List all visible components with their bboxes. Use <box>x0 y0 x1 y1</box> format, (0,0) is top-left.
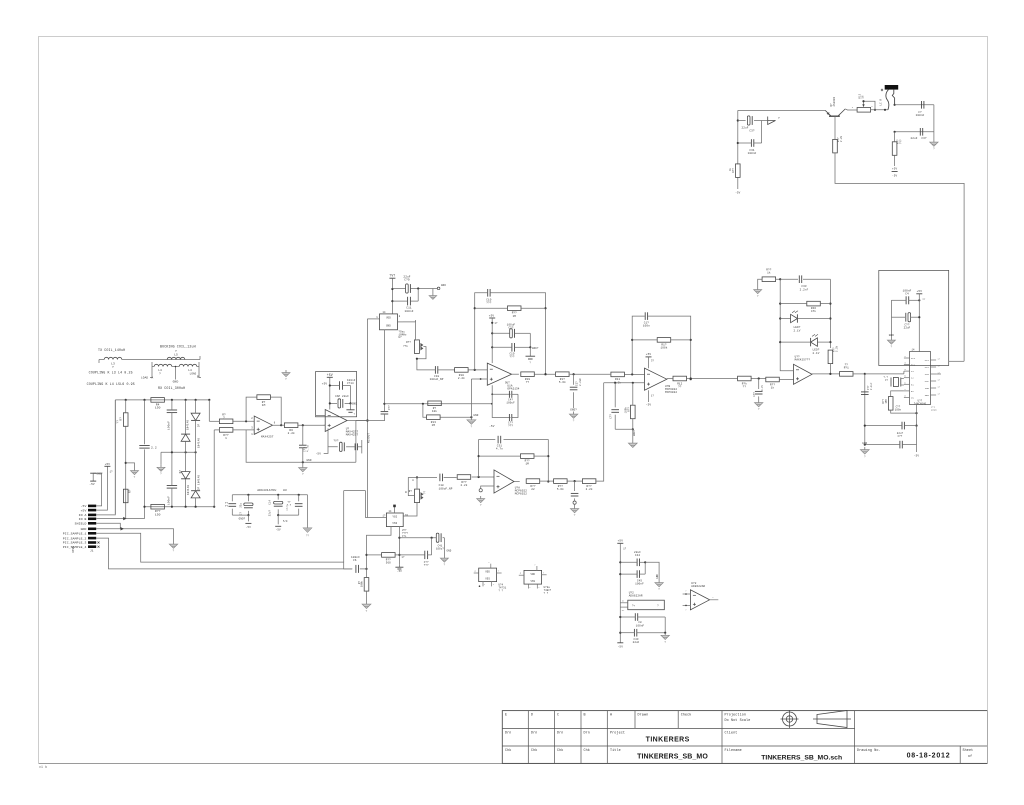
svg-text:GND?: GND? <box>97 473 104 476</box>
svg-text:GND: GND <box>352 403 357 406</box>
ground mid-left <box>131 468 139 479</box>
svg-text:ZEN: ZEN <box>925 394 930 397</box>
label C11 <box>405 307 414 313</box>
capacitor C44 <box>620 551 645 566</box>
svg-text:4046: 4046 <box>931 409 937 412</box>
resistor R y2 down <box>358 569 369 591</box>
ground ad bottom <box>661 633 669 644</box>
capacitor C qpath gnd <box>571 481 579 501</box>
pol capacitor osc A <box>392 284 437 293</box>
svg-text:AD9431A?DU: AD9431A?DU <box>257 489 276 492</box>
svg-text:D?: D? <box>179 470 182 474</box>
svg-text:PCP: PCP <box>925 380 930 383</box>
svg-text:+5V: +5V <box>322 383 328 386</box>
svg-text:C: C <box>557 714 559 718</box>
svg-text:IN B: IN B <box>79 517 87 521</box>
bypass box pll <box>879 270 949 365</box>
connector J1 labels <box>63 504 94 553</box>
svg-text:?: ? <box>757 295 759 298</box>
svg-text:5/9: 5/9 <box>283 520 288 523</box>
capacitor C pre led <box>753 379 764 401</box>
svg-text:22u?: 22u? <box>269 510 272 517</box>
transistor Q1 <box>825 96 845 139</box>
wire qpath in <box>408 476 437 478</box>
power bar osc <box>389 274 395 279</box>
ground u3 big <box>303 528 312 538</box>
svg-text:+5V: +5V <box>81 508 87 512</box>
wire ad gnd stub <box>645 562 659 580</box>
svg-text:GND: GND <box>173 381 179 384</box>
label +5V tr <box>892 168 897 171</box>
svg-text:GND: GND <box>473 414 478 417</box>
svg-text:GND: GND <box>386 325 391 328</box>
ic U13 pins <box>474 561 502 587</box>
svg-text:PIC_SAMPLE_2: PIC_SAMPLE_2 <box>63 536 87 540</box>
svg-text:MAX4257: MAX4257 <box>346 434 359 437</box>
svg-text:?: ? <box>470 426 472 429</box>
svg-text:Projection: Projection <box>725 713 747 718</box>
wire cap22 <box>329 377 352 409</box>
svg-text:-5V: -5V <box>892 175 897 178</box>
wire pll gnd <box>890 317 892 337</box>
svg-text:?V?: ?V? <box>389 274 395 278</box>
wire right mid rail <box>894 131 934 133</box>
svg-text:4.7u: 4.7u <box>307 445 310 452</box>
svg-text:?: ? <box>112 366 114 369</box>
wire R to opamp plus <box>233 429 254 431</box>
resistor R out led <box>840 363 854 376</box>
svg-text:VCO: VCO <box>925 373 930 376</box>
label GND mid <box>307 459 312 462</box>
svg-text:C??: C?? <box>610 414 613 419</box>
wire y2 bottom pins <box>365 527 391 569</box>
svg-text:J1: J1 <box>90 550 94 553</box>
resistor R 2k2 qpath <box>582 479 596 491</box>
capacitor C pll 22u <box>865 422 917 438</box>
svg-text:PC2: PC2 <box>911 364 916 367</box>
label 100nF C4 <box>903 290 912 296</box>
wire st2 lower net <box>324 440 362 453</box>
resistor R12 out <box>667 376 687 388</box>
svg-text:100nF: 100nF <box>405 310 414 313</box>
svg-text:Drn: Drn <box>557 730 563 735</box>
ic pll right pins <box>925 358 941 398</box>
resistor R1x 5k6 <box>556 372 570 384</box>
svg-text:1k: 1k <box>729 168 732 172</box>
svg-text:-5V: -5V <box>646 404 652 407</box>
wire osc out pin <box>398 321 404 323</box>
resistor R9 1M <box>475 306 546 318</box>
svg-text:Drawing No.: Drawing No. <box>857 748 881 753</box>
resistor R11 mix <box>611 372 625 384</box>
wire top bus <box>115 399 210 401</box>
ground led top <box>754 287 762 298</box>
wire u3 bot right <box>278 514 299 516</box>
svg-text:? ?: ? ? <box>499 590 504 593</box>
capacitor u3 c1 <box>225 495 236 515</box>
svg-text:v1 b: v1 b <box>39 765 47 769</box>
wire pll bottom net1 <box>891 391 904 397</box>
wire C18 to R <box>444 476 457 478</box>
svg-text:TX COIL_140uH: TX COIL_140uH <box>98 348 125 352</box>
svg-text:SHIELD: SHIELD <box>75 522 87 526</box>
label coupling 1 <box>89 371 133 375</box>
svg-text:2.2k: 2.2k <box>836 345 839 352</box>
svg-text:D? 1N4148: D? 1N4148 <box>197 475 200 490</box>
svg-text:Project: Project <box>610 730 625 735</box>
svg-text:R?1: R?1 <box>844 367 849 370</box>
inductor L4b <box>179 364 197 375</box>
svg-text:100nF: 100nF <box>635 583 644 586</box>
op-amp U12B <box>690 582 709 610</box>
title block <box>502 710 987 763</box>
svg-text:?: ? <box>173 550 175 553</box>
capacitor C22 pll <box>891 313 920 330</box>
svg-text:VSS: VSS <box>485 578 490 581</box>
capacitor C9 100nF <box>340 379 356 390</box>
resistor R 1k top <box>762 268 776 281</box>
svg-text:-5V: -5V <box>489 425 495 428</box>
wire mix trim path <box>417 359 455 370</box>
svg-text:2.2k: 2.2k <box>458 376 465 380</box>
svg-text:22u: 22u <box>240 503 243 508</box>
svg-text:INH: INH <box>925 387 930 390</box>
svg-text:C?14: C?14 <box>347 382 354 385</box>
svg-text:1?: 1? <box>402 556 405 559</box>
crystal Y1 <box>891 378 901 387</box>
svg-text:1M: 1M <box>525 463 529 466</box>
svg-text:-5V: -5V <box>316 452 322 455</box>
resistor R pre led <box>738 376 752 388</box>
ground tr right <box>930 132 938 151</box>
svg-text:2.2: 2.2 <box>151 446 157 449</box>
wire u3 top bus <box>232 494 307 496</box>
svg-text:??: ?? <box>845 363 849 366</box>
capacitor C pll xtal <box>864 441 917 449</box>
wire R2 rail <box>125 400 127 519</box>
wire y2 top pin <box>393 505 396 513</box>
inductor L3 <box>104 357 122 369</box>
svg-text:CONN: CONN <box>72 546 75 553</box>
wire left rail <box>114 400 116 514</box>
wire left drop tr <box>737 110 739 164</box>
svg-text:???: ??? <box>424 564 429 567</box>
svg-text:R??: R?? <box>732 168 735 173</box>
op-amp U5 MAX4257 <box>325 410 358 437</box>
led LED1 <box>780 311 830 333</box>
svg-text:?: ? <box>574 514 576 517</box>
wire C9 <box>330 385 351 387</box>
capacitor C31 tr <box>738 121 762 156</box>
capacitor C42b <box>399 538 431 568</box>
ground qtap <box>569 412 577 423</box>
wire sum plus in <box>604 382 645 384</box>
svg-text:-5V: -5V <box>735 191 740 194</box>
svg-text:?: ? <box>223 417 225 420</box>
wire led out2 <box>853 373 866 375</box>
svg-text:-5V: -5V <box>246 526 251 529</box>
wire ic right pin <box>403 320 415 322</box>
svg-text:LOAD: LOAD <box>141 377 148 380</box>
label GND pll <box>889 334 894 337</box>
svg-text:R??: R?? <box>882 399 885 404</box>
capacitor u3 c4 <box>286 495 303 515</box>
svg-text:1M: 1M <box>262 404 266 407</box>
svg-text:???: ??? <box>508 425 513 428</box>
svg-text:Chk: Chk <box>505 748 511 753</box>
svg-text:A: A <box>152 377 154 380</box>
capacitor C17 st2 <box>355 443 357 450</box>
svg-text:C??: C?? <box>753 392 756 397</box>
capacitor C18 NP <box>439 474 453 491</box>
port circle qpath <box>479 489 482 492</box>
wire st2 minus <box>316 414 326 416</box>
svg-text:?: ? <box>480 504 482 507</box>
capacitor C3 upper <box>167 410 177 430</box>
trimmer R8 <box>409 489 427 503</box>
capacitor C33 fb <box>799 275 808 291</box>
ic U14 small <box>524 570 542 584</box>
power +5V pll <box>916 290 926 352</box>
label U14 <box>544 586 552 595</box>
wire base rail <box>738 109 826 111</box>
svg-text:08-18-2012: 08-18-2012 <box>907 753 951 760</box>
label GND sum <box>633 429 636 436</box>
resistor R10 qpath <box>457 475 471 488</box>
svg-text:+5V: +5V <box>917 290 923 293</box>
svg-text:1N4148: 1N4148 <box>197 438 200 448</box>
ground y2 flat <box>395 565 403 573</box>
wire sum vminus <box>649 390 655 402</box>
wire C7 <box>302 425 304 462</box>
label -5V sum <box>646 404 652 407</box>
svg-text:C3?: C3? <box>749 130 754 133</box>
wire mid gnd <box>160 452 162 464</box>
wire pin1 -5V <box>93 473 101 506</box>
svg-text:??: ?? <box>424 490 427 494</box>
capacitor C mixout tap <box>861 382 873 394</box>
resistor R emitter <box>833 135 843 153</box>
svg-text:PC2: PC2 <box>925 366 930 369</box>
svg-text:100n: 100n <box>895 409 902 412</box>
diode D2 <box>179 470 190 495</box>
svg-text:?: ? <box>366 610 368 613</box>
diode D1 <box>181 420 190 442</box>
capacitor C right a <box>916 101 925 117</box>
svg-text:?: ? <box>529 362 531 365</box>
svg-text:?: ? <box>285 378 287 381</box>
ground osc <box>429 293 437 299</box>
ground pre led <box>755 400 763 411</box>
nc mark pin9 <box>98 542 100 544</box>
svg-text:?: ? <box>933 148 935 151</box>
svg-text:TINKERERS_SB_MO: TINKERERS_SB_MO <box>637 754 708 761</box>
svg-text:??: ?? <box>678 386 682 389</box>
label MIXOUT <box>368 433 371 443</box>
pol capacitor u3 c3 <box>269 495 283 516</box>
resistor R lower 10k <box>428 401 442 413</box>
power +5V U1A <box>489 314 495 318</box>
capacitor C gnd sum <box>610 383 633 430</box>
wire R10 to opamp <box>472 476 494 478</box>
svg-text:Chk: Chk <box>531 748 537 753</box>
label GND r13 <box>473 414 478 417</box>
wire qpath out2 <box>540 480 554 482</box>
svg-text:74HC4046: 74HC4046 <box>914 403 927 406</box>
wire U1A out3 <box>570 373 611 375</box>
svg-text:56: 56 <box>862 95 865 99</box>
pol capacitor C bypass U1A a <box>492 324 530 338</box>
capacitor C40 <box>509 391 511 398</box>
ic Y2 osc <box>383 510 409 526</box>
svg-text:?: ? <box>134 476 136 479</box>
svg-text:Title: Title <box>610 748 621 753</box>
svg-text:E: E <box>505 714 507 718</box>
capacitor C16 st2 <box>333 440 344 452</box>
resistor R5 <box>151 504 165 516</box>
wire ic to trimmer <box>415 320 417 340</box>
ground qpath out <box>570 506 578 517</box>
svg-text:C??: C?? <box>898 435 903 438</box>
label GND qtap <box>570 409 577 412</box>
svg-text:2.2k: 2.2k <box>288 431 295 435</box>
inductor L4a <box>154 364 172 375</box>
capacitor C10 fb <box>486 289 491 305</box>
resistor R 560 <box>367 553 400 565</box>
capacitor C7 tank <box>299 445 310 452</box>
svg-text:-5V: -5V <box>914 455 919 458</box>
wire trimmer <box>408 476 418 495</box>
svg-text:of: of <box>968 754 972 759</box>
capacitor C30 right <box>911 128 927 140</box>
svg-text:R??: R?? <box>628 407 631 412</box>
svg-text:100nF: 100nF <box>636 624 645 627</box>
wire mixout bus <box>366 319 368 518</box>
wire right top rail <box>895 105 934 132</box>
label A B trim <box>405 479 414 494</box>
ic oscillator X1 <box>376 311 401 330</box>
resistor R gnd sum <box>625 405 636 419</box>
wire pin2 +5V <box>96 466 113 510</box>
svg-text:GND?: GND? <box>570 409 577 412</box>
svg-text:100k: 100k <box>625 407 628 414</box>
capacitor C4 pll <box>891 296 920 317</box>
wire sum out <box>687 377 737 379</box>
wire pll left drop <box>864 374 866 445</box>
ground qpath plus <box>477 496 485 507</box>
led LED2 <box>780 334 830 354</box>
svg-text:22: 22 <box>531 488 535 491</box>
resistor R input A <box>219 414 233 424</box>
wire u3 stub2 <box>275 515 288 532</box>
label -5V U1A <box>489 425 495 428</box>
resistor R3 lower <box>123 489 131 503</box>
ground top mid <box>282 370 290 381</box>
svg-text:GND: GND <box>447 550 452 553</box>
capacitor C5 lower <box>167 486 177 506</box>
wire pin7 sample1 <box>96 533 352 569</box>
wire tr r down <box>735 177 740 194</box>
label U12 AD8622 <box>629 592 643 598</box>
svg-text:GND?: GND? <box>633 429 636 436</box>
wire U1A vplus <box>491 318 498 363</box>
label coupling 2 <box>87 382 135 386</box>
power +5V st2 <box>327 373 333 378</box>
nc mark pin10 <box>98 546 100 548</box>
wire osc pwr <box>391 278 393 314</box>
svg-text:C?: C? <box>240 512 243 516</box>
svg-text:AD8622AR: AD8622AR <box>691 585 705 588</box>
label 22uF C9 <box>403 275 410 281</box>
svg-text:560: 560 <box>386 562 391 565</box>
svg-text:TINKERERS_SB_MO.sch: TINKERERS_SB_MO.sch <box>761 755 842 762</box>
svg-text:150: 150 <box>155 407 161 410</box>
resistor R46 fb <box>780 301 830 313</box>
jack tip contact <box>892 90 895 106</box>
svg-text:2.2k: 2.2k <box>840 135 843 142</box>
wire sum vplus <box>649 357 655 368</box>
svg-text:10k: 10k <box>432 409 437 413</box>
wire r vert2 down <box>894 155 896 166</box>
power bar tr <box>892 172 898 178</box>
wire pll box out <box>949 360 964 362</box>
op-amp U7 sum <box>645 368 678 394</box>
rx coil frame <box>150 362 201 378</box>
svg-text:+5V: +5V <box>892 168 897 171</box>
resistor R47 vert <box>828 345 838 363</box>
resistor R input B <box>219 428 233 440</box>
resistor R out qpath <box>526 479 540 491</box>
wire st2 right loop <box>355 421 357 463</box>
wire r down gnd <box>366 591 368 601</box>
svg-text:BUCKING COIL_12uH: BUCKING COIL_12uH <box>160 345 196 349</box>
svg-text:R?: R? <box>120 417 123 421</box>
label pll pin14 <box>911 349 915 352</box>
op-amp U8 led <box>794 356 813 385</box>
capacitor C31 qpath <box>496 436 503 451</box>
label 100n pll <box>895 406 902 412</box>
capacitor C8 ad <box>620 613 665 627</box>
svg-text:14: 14 <box>382 311 386 314</box>
svg-text:VDD: VDD <box>485 571 490 574</box>
svg-text:C?: C? <box>885 379 888 382</box>
svg-text:COUPLING K L3 L4 0.25: COUPLING K L3 L4 0.25 <box>89 371 133 375</box>
trimmer R7 upper <box>403 340 426 360</box>
svg-text:?: ? <box>890 346 892 349</box>
wire led in <box>752 377 766 379</box>
svg-text:4.7n: 4.7n <box>761 384 764 391</box>
capacitor C18b <box>430 366 444 381</box>
power +5V ad <box>617 540 623 544</box>
wire C1x <box>383 403 385 421</box>
svg-text:1M?: 1M? <box>885 399 888 404</box>
label u2 pins <box>402 529 408 538</box>
resistor R13 1M <box>423 404 473 427</box>
resistor R fb sum <box>632 338 691 350</box>
svg-text:L5: L5 <box>174 354 178 357</box>
svg-text:TINKERERS: TINKERERS <box>646 737 690 744</box>
resistor R tr 1k <box>729 164 740 178</box>
wire collector <box>845 109 857 110</box>
capacitor C43 ad <box>620 617 666 644</box>
svg-text:R?: R? <box>409 490 413 493</box>
capacitor C2 <box>139 446 157 450</box>
svg-text:MAX4257: MAX4257 <box>261 435 274 438</box>
ic U10 74HC4046 <box>910 352 931 405</box>
svg-text:Check: Check <box>681 713 692 718</box>
svg-text:??: ?? <box>306 535 310 538</box>
wire inA to R <box>209 420 219 422</box>
